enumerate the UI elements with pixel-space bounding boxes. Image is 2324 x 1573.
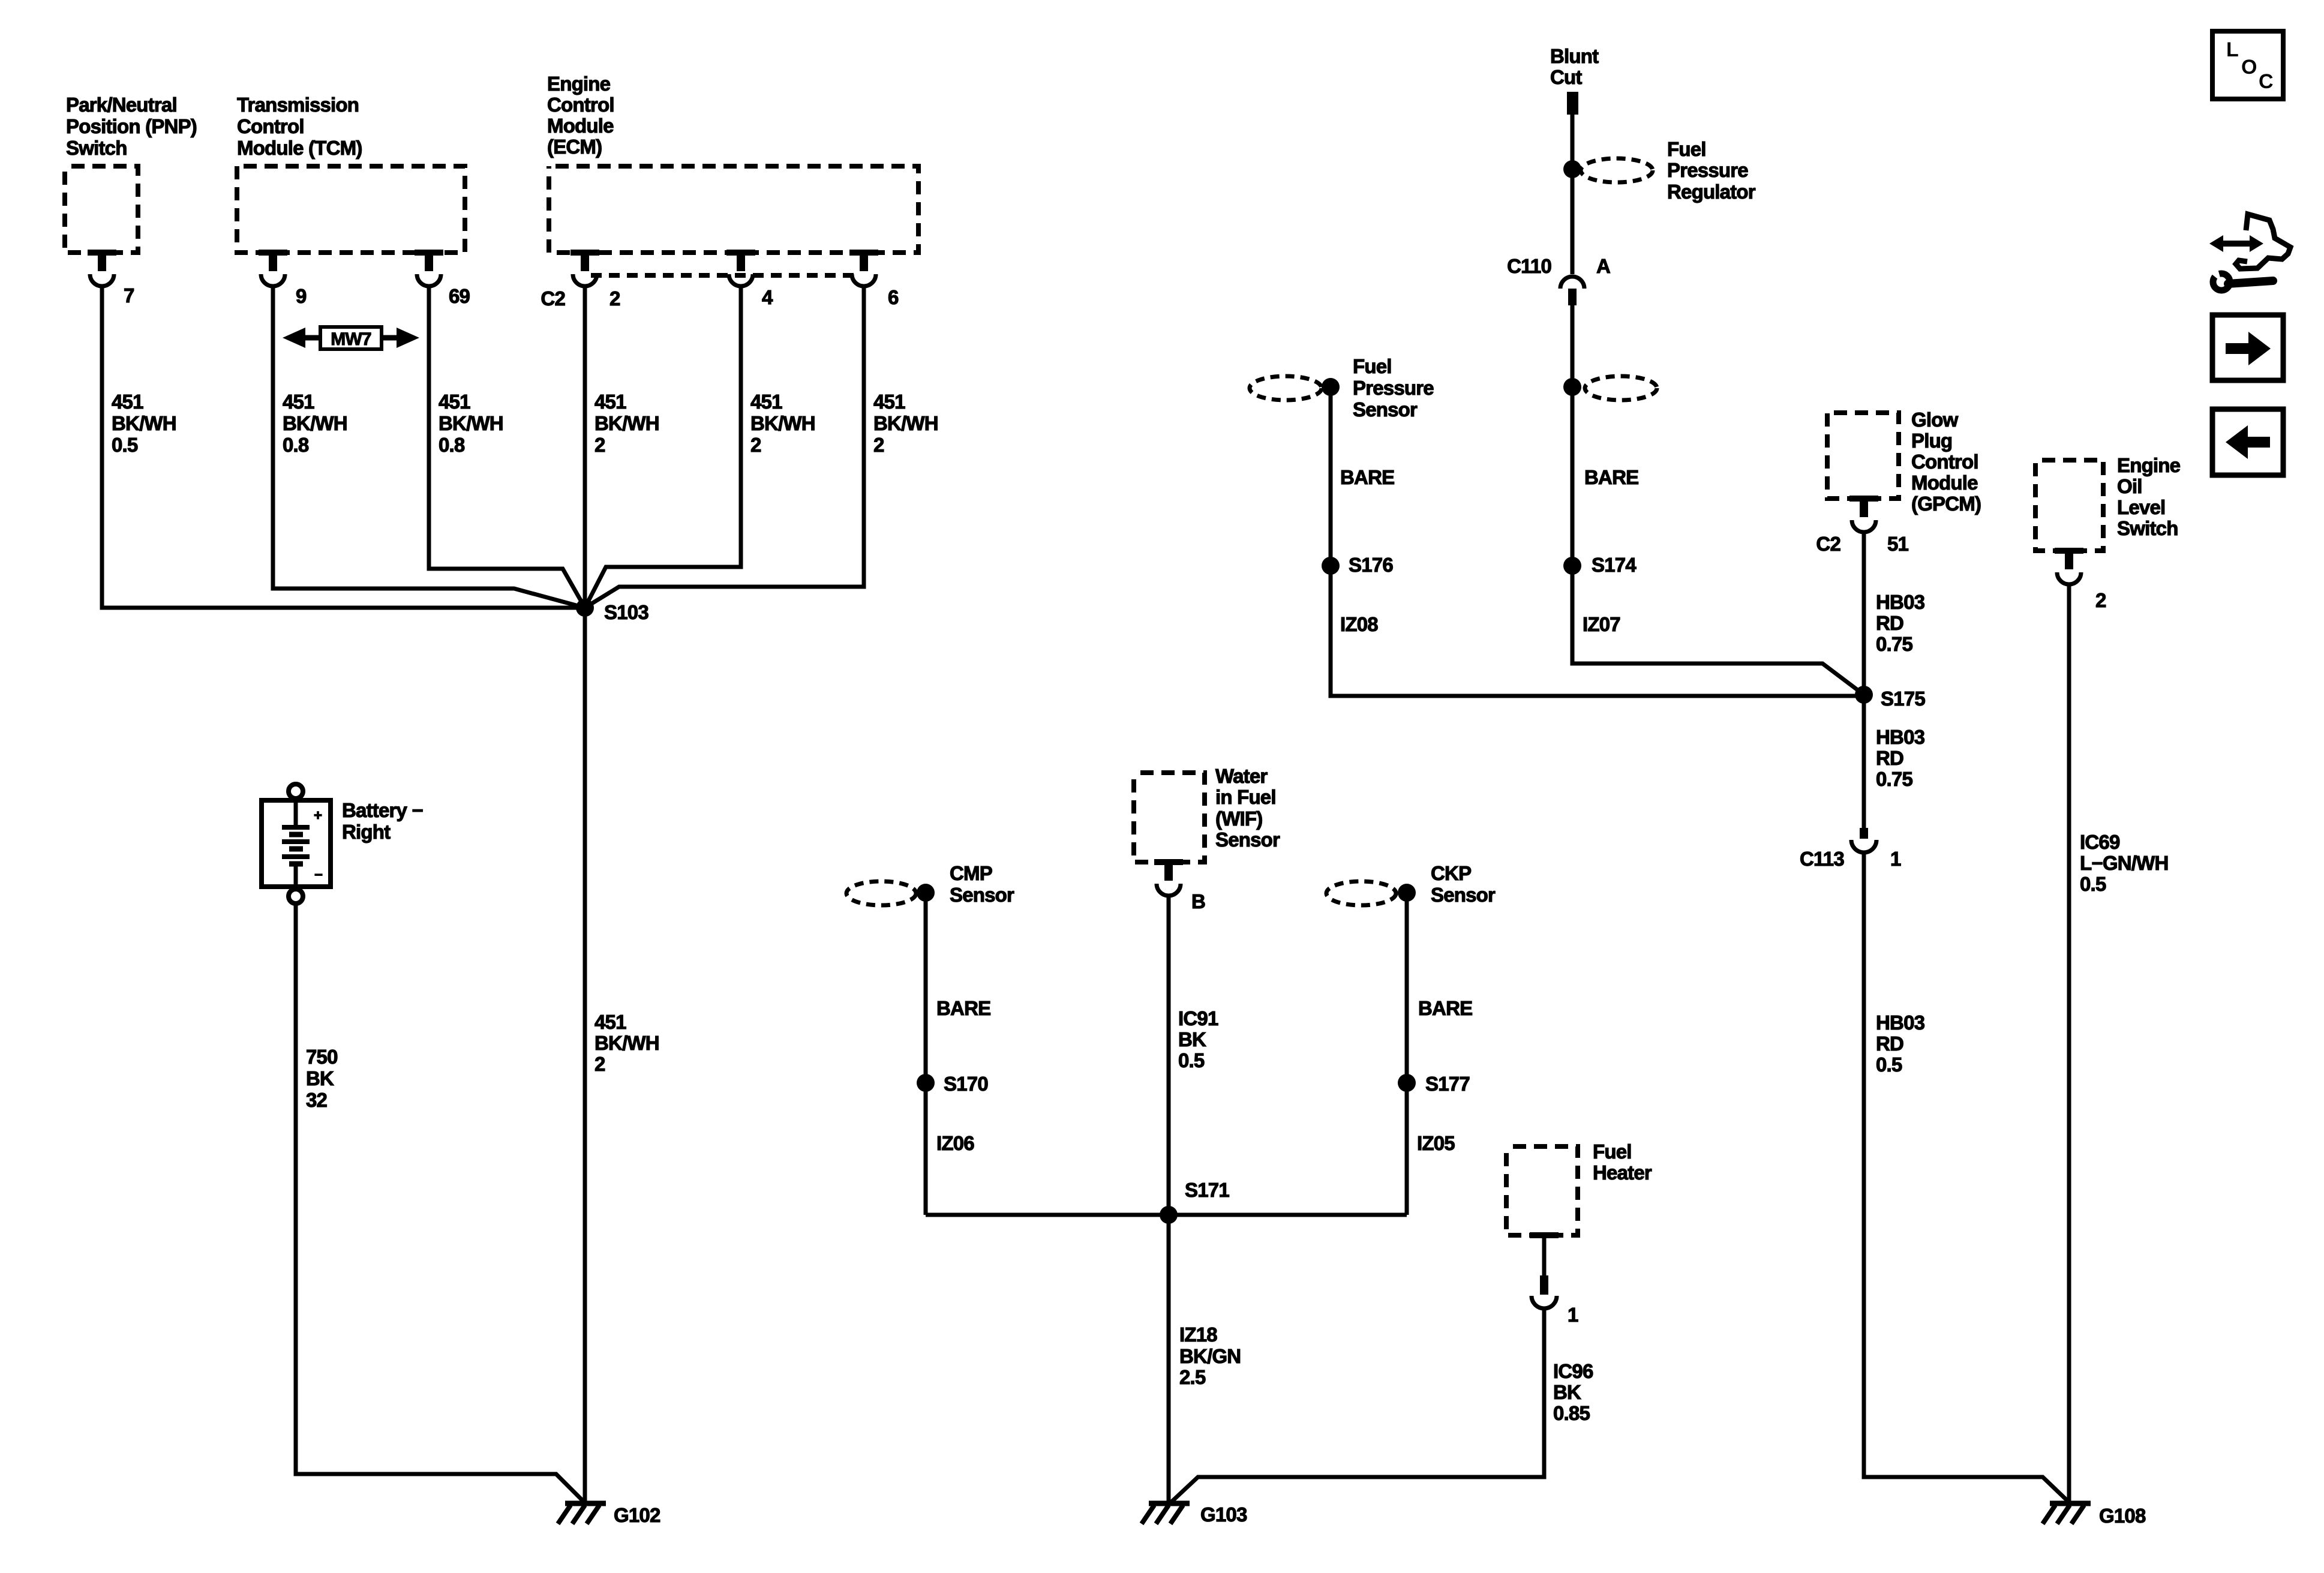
svg-text:Regulator: Regulator xyxy=(1667,181,1756,203)
wire label 451 BK/WH 2 (pin 2) xyxy=(594,391,659,456)
ECM internal dotted bus between pins 2 4 6 xyxy=(591,273,858,278)
svg-text:S177: S177 xyxy=(1425,1073,1470,1095)
svg-text:Transmission: Transmission xyxy=(237,94,359,116)
svg-text:S171: S171 xyxy=(1185,1179,1229,1201)
svg-text:BARE: BARE xyxy=(1340,466,1394,488)
svg-text:32: 32 xyxy=(306,1089,328,1111)
blunt cut terminal xyxy=(1567,92,1578,115)
svg-text:451: 451 xyxy=(594,391,626,413)
wire label BARE (middle) xyxy=(1584,466,1638,488)
splice tap below C110 xyxy=(1563,378,1581,396)
component TCM dashed box xyxy=(237,166,465,253)
pin number 9 xyxy=(296,285,307,307)
component WIF Sensor dashed box xyxy=(1134,773,1205,862)
wire label 451 BK/WH 2 (pin 4) xyxy=(750,391,815,456)
wire 451 BK/WH 0.5 from PNP pin 7 to S103 xyxy=(102,286,585,608)
svg-text:MW7: MW7 xyxy=(331,329,371,349)
component label Engine Oil Level Switch xyxy=(2117,454,2181,539)
svg-text:750: 750 xyxy=(306,1046,338,1068)
svg-text:C113: C113 xyxy=(1800,848,1844,870)
svg-text:0.85: 0.85 xyxy=(1553,1402,1590,1424)
svg-text:CMP: CMP xyxy=(950,862,992,884)
svg-text:Sensor: Sensor xyxy=(950,884,1014,906)
dashed ellipse Fuel Pressure Sensor xyxy=(1250,376,1322,400)
svg-text:−: − xyxy=(314,867,323,883)
svg-text:BK/WH: BK/WH xyxy=(439,412,503,434)
wire BARE from C110 to S174 to S175 xyxy=(1572,305,1864,695)
module label Engine Control Module (ECM) xyxy=(547,73,614,158)
wire BARE from CMP Sensor to S171 xyxy=(924,893,928,1215)
connector label C110 xyxy=(1507,255,1551,277)
svg-text:Level: Level xyxy=(2117,496,2165,518)
svg-text:Control: Control xyxy=(1911,451,1978,473)
svg-text:2: 2 xyxy=(2095,589,2106,611)
ground G103 xyxy=(1142,1503,1190,1524)
svg-text:0.75: 0.75 xyxy=(1876,633,1912,655)
connector label C113 xyxy=(1800,848,1844,870)
svg-text:451: 451 xyxy=(439,391,470,413)
dashed ellipse Fuel Pressure Regulator tap xyxy=(1581,158,1653,182)
svg-text:Module: Module xyxy=(547,115,614,137)
svg-text:BK/WH: BK/WH xyxy=(873,412,938,434)
legend LOC box xyxy=(2212,31,2283,99)
svg-text:Position (PNP): Position (PNP) xyxy=(66,115,197,137)
pin number 69 xyxy=(449,285,470,307)
svg-text:9: 9 xyxy=(296,285,307,307)
svg-text:2: 2 xyxy=(873,434,884,456)
svg-text:Control: Control xyxy=(547,94,614,116)
wire IC91 BK 0.5 from WIF Sensor through S171 to G103 xyxy=(1167,896,1171,1503)
splice CKP Sensor tap xyxy=(1398,884,1416,902)
svg-text:0.75: 0.75 xyxy=(1876,768,1912,790)
wire IC69 L-GN/WH 0.5 to G108 xyxy=(2067,584,2071,1503)
ground G102 xyxy=(558,1503,606,1524)
svg-text:BK/WH: BK/WH xyxy=(594,412,659,434)
ground label G102 xyxy=(614,1504,660,1526)
svg-text:Engine: Engine xyxy=(547,73,611,95)
svg-text:Plug: Plug xyxy=(1911,430,1952,452)
svg-text:0.5: 0.5 xyxy=(1178,1049,1205,1071)
wire label IC69 L-GN/WH 0.5 xyxy=(2080,831,2168,895)
svg-text:2: 2 xyxy=(750,434,761,456)
ground G108 xyxy=(2043,1503,2091,1524)
svg-text:Water: Water xyxy=(1215,765,1268,787)
dashed ellipse CKP Sensor xyxy=(1326,881,1396,905)
svg-text:7: 7 xyxy=(124,284,134,307)
svg-text:Control: Control xyxy=(237,115,304,137)
wire label 451 BK/WH 0.5 xyxy=(112,391,176,456)
pin number 2 xyxy=(609,287,620,310)
svg-text:G108: G108 xyxy=(2099,1505,2146,1527)
svg-text:Fuel: Fuel xyxy=(1353,355,1392,377)
connector terminal 1 of Fuel Heater xyxy=(1532,1275,1557,1308)
wire label 451 BK/WH 0.8 (pin 69) xyxy=(439,391,503,456)
splice S175 xyxy=(1855,686,1873,704)
svg-text:Heater: Heater xyxy=(1593,1161,1652,1184)
svg-text:S175: S175 xyxy=(1881,688,1925,710)
component label Fuel Pressure Regulator xyxy=(1667,138,1756,203)
component GPCM dashed box xyxy=(1827,413,1899,499)
component label Battery - Right xyxy=(342,799,423,843)
svg-text:451: 451 xyxy=(594,1011,626,1033)
pin number 2 (oil level switch) xyxy=(2095,589,2106,611)
pin B connector of WIF Sensor xyxy=(1154,859,1183,896)
svg-text:Pressure: Pressure xyxy=(1353,377,1434,399)
svg-text:C2: C2 xyxy=(1816,533,1840,555)
svg-text:Engine: Engine xyxy=(2117,454,2181,476)
svg-text:BARE: BARE xyxy=(1418,997,1472,1019)
svg-text:BK/WH: BK/WH xyxy=(594,1032,659,1054)
wire label IZ06 xyxy=(936,1132,974,1154)
svg-text:B: B xyxy=(1191,890,1205,912)
wire bus from CMP and CKP into S171 xyxy=(926,1213,1407,1217)
svg-text:IZ06: IZ06 xyxy=(936,1132,974,1154)
svg-text:S174: S174 xyxy=(1592,554,1637,576)
svg-text:L−GN/WH: L−GN/WH xyxy=(2080,852,2168,874)
pin 4 connector of ECM xyxy=(726,250,755,286)
component PNP Switch dashed box xyxy=(65,166,138,253)
svg-text:Cut: Cut xyxy=(1550,66,1582,88)
wire label IZ07 xyxy=(1583,613,1620,635)
pin 69 connector of TCM xyxy=(415,250,443,286)
svg-text:(ECM): (ECM) xyxy=(547,136,602,158)
component label Fuel Heater xyxy=(1593,1140,1652,1184)
pin 6 connector of ECM xyxy=(849,250,878,286)
svg-text:Fuel: Fuel xyxy=(1593,1140,1632,1163)
pin 2 connector of Engine Oil Level Switch xyxy=(2055,548,2083,584)
wire label 451 BK/WH 2 below S103 xyxy=(594,1011,659,1075)
pin number 6 xyxy=(888,286,899,308)
wire HB03 RD 0.75 from GPCM pin 51 through S175 to C113 xyxy=(1862,532,1866,828)
svg-text:RD: RD xyxy=(1876,747,1903,769)
pin lead of Fuel Heater xyxy=(1530,1232,1559,1275)
splice label S177 xyxy=(1425,1073,1470,1095)
svg-text:HB03: HB03 xyxy=(1876,591,1925,613)
wire from blunt cut to C110 xyxy=(1571,115,1575,274)
legend diagnostic tool icon (arrows and wrench) xyxy=(2206,214,2290,290)
wire label IZ05 xyxy=(1417,1132,1455,1154)
svg-text:IC69: IC69 xyxy=(2080,831,2120,853)
terminal letter A xyxy=(1596,255,1610,277)
component ECM dashed box xyxy=(549,166,918,253)
svg-text:IZ07: IZ07 xyxy=(1583,613,1620,635)
svg-text:HB03: HB03 xyxy=(1876,726,1925,748)
svg-text:IZ08: IZ08 xyxy=(1340,613,1378,635)
splice Fuel Pressure Sensor tap xyxy=(1322,378,1340,396)
svg-text:0.8: 0.8 xyxy=(283,434,309,456)
svg-text:(WIF): (WIF) xyxy=(1215,807,1262,830)
connector label C2 xyxy=(541,287,565,310)
splice label S170 xyxy=(944,1073,988,1095)
wire label BARE (CMP) xyxy=(936,997,990,1019)
svg-text:RD: RD xyxy=(1876,612,1903,634)
svg-text:Battery −: Battery − xyxy=(342,799,423,821)
svg-text:BARE: BARE xyxy=(936,997,990,1019)
svg-text:Sensor: Sensor xyxy=(1215,828,1280,851)
component label Fuel Pressure Sensor xyxy=(1353,355,1434,421)
svg-text:2: 2 xyxy=(594,434,605,456)
wire label HB03 RD 0.5 xyxy=(1876,1011,1925,1076)
svg-text:G103: G103 xyxy=(1200,1503,1247,1526)
module label Transmission Control Module (TCM) xyxy=(237,94,362,159)
pin letter B xyxy=(1191,890,1205,912)
svg-text:1: 1 xyxy=(1890,848,1901,870)
svg-text:Right: Right xyxy=(342,821,391,843)
svg-text:Module (TCM): Module (TCM) xyxy=(237,137,362,159)
svg-text:0.5: 0.5 xyxy=(1876,1053,1902,1076)
legend box with left arrow xyxy=(2212,409,2283,475)
svg-text:BK/WH: BK/WH xyxy=(112,412,176,434)
component label CMP Sensor xyxy=(950,862,1014,906)
component label Water in Fuel (WIF) Sensor xyxy=(1215,765,1280,851)
wire 451 BK/WH 2 from ECM pin 2 through S103 to G102 xyxy=(583,286,587,1503)
svg-text:S103: S103 xyxy=(604,601,648,623)
svg-text:CKP: CKP xyxy=(1431,862,1471,884)
wire 451 BK/WH 0.8 from TCM pin 9 to S103 xyxy=(273,286,585,608)
pin number 1 (fuel heater) xyxy=(1568,1304,1578,1326)
connector C110 terminal A xyxy=(1560,277,1584,305)
svg-text:in Fuel: in Fuel xyxy=(1215,786,1276,808)
wire IC96 BK 0.85 from Fuel Heater to G103 xyxy=(1170,1310,1544,1503)
ground label G108 xyxy=(2099,1505,2146,1527)
pin 51 connector of GPCM xyxy=(1849,496,1878,532)
svg-text:C2: C2 xyxy=(541,287,565,310)
splice label S103 xyxy=(604,601,648,623)
svg-text:Switch: Switch xyxy=(2117,517,2178,539)
svg-text:(GPCM): (GPCM) xyxy=(1911,493,1981,515)
svg-text:IC96: IC96 xyxy=(1553,1360,1593,1382)
svg-text:Oil: Oil xyxy=(2117,475,2142,497)
pin number 4 xyxy=(762,286,773,308)
svg-text:Module: Module xyxy=(1911,472,1978,494)
dashed ellipse CMP Sensor xyxy=(846,881,916,905)
ground label G103 xyxy=(1200,1503,1247,1526)
pin 2 connector of ECM xyxy=(571,250,599,286)
svg-text:HB03: HB03 xyxy=(1876,1011,1925,1034)
svg-text:Blunt: Blunt xyxy=(1550,45,1599,67)
component Engine Oil Level Switch dashed box xyxy=(2035,460,2103,551)
wire label IC96 BK 0.85 xyxy=(1553,1360,1593,1424)
svg-text:451: 451 xyxy=(283,391,314,413)
svg-text:C110: C110 xyxy=(1507,255,1551,277)
splice S176 xyxy=(1322,557,1340,575)
wire HB03 RD 0.5 from C113 to G108 xyxy=(1864,852,2070,1503)
wire 451 BK/WH 2 from ECM pin 6 to S103 xyxy=(585,286,864,608)
svg-text:BK/WH: BK/WH xyxy=(750,412,815,434)
svg-text:Sensor: Sensor xyxy=(1431,884,1496,906)
wire label IZ08 xyxy=(1340,613,1378,635)
svg-text:4: 4 xyxy=(762,286,773,308)
svg-text:0.5: 0.5 xyxy=(112,434,138,456)
svg-text:2: 2 xyxy=(594,1053,605,1075)
svg-text:RD: RD xyxy=(1876,1032,1903,1055)
svg-text:BK: BK xyxy=(306,1067,334,1089)
svg-text:6: 6 xyxy=(888,286,899,308)
splice S174 xyxy=(1563,557,1581,575)
wire label BARE (fuel pressure sensor) xyxy=(1340,466,1394,488)
svg-text:S170: S170 xyxy=(944,1073,988,1095)
svg-text:Switch: Switch xyxy=(66,137,127,159)
wire BARE from CKP Sensor to S171 xyxy=(1405,893,1409,1215)
splice label S171 xyxy=(1185,1179,1229,1201)
wire 750 BK 32 from battery negative to G102 xyxy=(296,905,585,1503)
connector C113 terminal 1 xyxy=(1851,828,1876,852)
pin number 51 xyxy=(1887,533,1909,555)
svg-text:IC91: IC91 xyxy=(1178,1007,1218,1029)
svg-text:O: O xyxy=(2241,56,2257,79)
module label Park/Neutral Position (PNP) Switch xyxy=(66,94,197,159)
wire label 750 BK 32 xyxy=(306,1046,338,1111)
component Fuel Heater dashed box xyxy=(1506,1146,1578,1235)
legend box with right arrow xyxy=(2212,315,2283,380)
svg-text:BK/WH: BK/WH xyxy=(283,412,347,434)
svg-text:2: 2 xyxy=(609,287,620,310)
svg-text:1: 1 xyxy=(1568,1304,1578,1326)
svg-text:G102: G102 xyxy=(614,1504,660,1526)
svg-text:2.5: 2.5 xyxy=(1179,1366,1206,1388)
wire label 451 BK/WH 2 (pin 6) xyxy=(873,391,938,456)
svg-text:Fuel: Fuel xyxy=(1667,138,1706,160)
svg-text:L: L xyxy=(2226,38,2238,61)
svg-text:451: 451 xyxy=(112,391,143,413)
svg-text:IZ18: IZ18 xyxy=(1179,1323,1217,1346)
splice CMP Sensor tap xyxy=(917,884,935,902)
dashed ellipse splice tap xyxy=(1585,376,1657,400)
splice S103 xyxy=(576,599,594,617)
svg-text:BARE: BARE xyxy=(1584,466,1638,488)
pin number 1 (C113) xyxy=(1890,848,1901,870)
splice label S174 xyxy=(1592,554,1637,576)
wire label IC91 BK 0.5 xyxy=(1178,1007,1218,1071)
svg-text:0.8: 0.8 xyxy=(439,434,465,456)
svg-text:S176: S176 xyxy=(1349,554,1393,576)
svg-text:451: 451 xyxy=(873,391,905,413)
harness splice symbol MW7 xyxy=(283,327,419,349)
connector label C2 (GPCM) xyxy=(1816,533,1840,555)
svg-text:69: 69 xyxy=(449,285,470,307)
svg-text:BK: BK xyxy=(1553,1381,1581,1403)
splice S177 xyxy=(1398,1074,1416,1092)
svg-text:451: 451 xyxy=(750,391,782,413)
svg-text:Pressure: Pressure xyxy=(1667,159,1748,181)
svg-text:BK/GN: BK/GN xyxy=(1179,1345,1241,1367)
svg-text:0.5: 0.5 xyxy=(2080,873,2106,895)
component label CKP Sensor xyxy=(1431,862,1496,906)
svg-text:+: + xyxy=(314,807,322,824)
splice label S176 xyxy=(1349,554,1393,576)
splice S171 xyxy=(1160,1206,1178,1224)
svg-text:Park/Neutral: Park/Neutral xyxy=(66,94,177,116)
wire label 451 BK/WH 0.8 (pin 9) xyxy=(283,391,347,456)
wire label HB03 RD 0.75 (above S175) xyxy=(1876,591,1925,655)
wire label HB03 RD 0.75 (below S175) xyxy=(1876,726,1925,790)
wire BARE from Fuel Pressure Sensor to S175 xyxy=(1331,387,1864,696)
svg-text:Sensor: Sensor xyxy=(1353,398,1418,421)
wire 451 BK/WH 2 from ECM pin 4 to S103 xyxy=(585,286,741,608)
svg-text:Glow: Glow xyxy=(1911,409,1959,431)
pin 9 connector of TCM xyxy=(259,250,287,286)
wire label BARE (CKP) xyxy=(1418,997,1472,1019)
svg-text:C: C xyxy=(2259,70,2273,93)
battery Battery - Right xyxy=(262,784,331,903)
splice label S175 xyxy=(1881,688,1925,710)
splice S170 xyxy=(917,1074,935,1092)
pin number 7 xyxy=(124,284,134,307)
svg-text:51: 51 xyxy=(1887,533,1909,555)
svg-text:BK: BK xyxy=(1178,1028,1206,1050)
wire label IZ18 BK/GN 2.5 xyxy=(1179,1323,1241,1388)
module label Glow Plug Control Module (GPCM) xyxy=(1911,409,1981,515)
svg-text:A: A xyxy=(1596,255,1610,277)
pin 7 connector of PNP Switch xyxy=(88,250,116,286)
svg-text:IZ05: IZ05 xyxy=(1417,1132,1455,1154)
splice to Fuel Pressure Regulator xyxy=(1563,160,1581,178)
wire 451 BK/WH 0.8 from TCM pin 69 to S103 xyxy=(429,286,585,608)
label Blunt Cut xyxy=(1550,45,1599,88)
